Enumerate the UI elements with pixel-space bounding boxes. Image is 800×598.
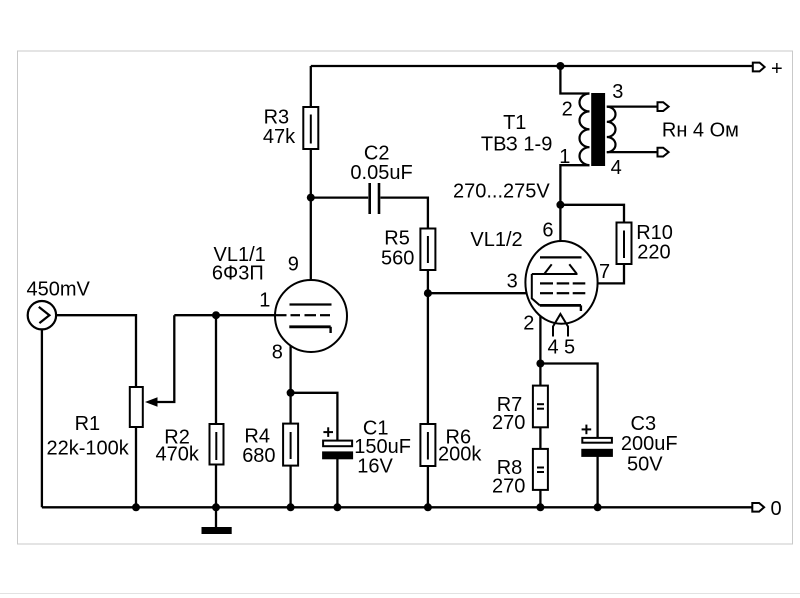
svg-text:4: 4 (548, 336, 559, 358)
node cathode VL1/1 (287, 389, 295, 397)
wire R2 bottom lead (215, 465, 217, 508)
node top rail T1 (556, 62, 564, 70)
wire node to C2 left plate (311, 196, 368, 198)
wire pot bottom lead (135, 428, 137, 507)
wire R4 bottom lead (289, 466, 291, 508)
capacitor C1 electrolytic (322, 427, 353, 459)
resistor R4 (283, 424, 298, 466)
node R5/R6 grid (424, 289, 432, 297)
tube VL1/1 triode (275, 280, 348, 352)
label 450mV (27, 278, 91, 300)
wire C2 right plate to R5 corner (380, 198, 428, 229)
label plus (771, 58, 783, 80)
svg-text:6: 6 (542, 219, 553, 241)
node rail R8 (536, 503, 544, 511)
label R2 value (156, 426, 200, 465)
svg-text:C3: C3 (631, 413, 657, 435)
svg-text:8: 8 (272, 342, 283, 364)
wire VL1/2 cathode lead pin 2 (539, 305, 541, 363)
svg-text:R1: R1 (75, 413, 101, 435)
svg-text:+: + (771, 58, 783, 80)
label C1 value (354, 418, 411, 478)
pin 3 (507, 271, 518, 293)
svg-text:4: 4 (611, 157, 622, 179)
wire C3 bottom lead (596, 456, 598, 507)
svg-text:VL1/2: VL1/2 (470, 229, 522, 251)
wire top rail (+) (311, 65, 753, 67)
label anode voltage (453, 181, 550, 203)
terminal + (753, 63, 765, 72)
svg-text:2: 2 (562, 99, 573, 121)
node anode VL1/2 (556, 201, 564, 209)
wire source bottom lead down to rail (41, 329, 43, 507)
T1 pin 1 (559, 146, 570, 168)
svg-text:270: 270 (492, 475, 525, 497)
svg-text:9: 9 (288, 253, 299, 275)
pin 2 (523, 313, 534, 335)
node R3/C2 (307, 194, 315, 202)
resistor R7 (533, 386, 548, 428)
wire R5 bottom to node (427, 270, 429, 293)
node cathode VL1/2 (536, 360, 544, 368)
wire R2 top lead (215, 315, 217, 424)
svg-text:270: 270 (492, 412, 525, 434)
node grid/R2 (212, 311, 220, 319)
node rail C3 (594, 503, 602, 511)
wire node to R10 top (560, 205, 624, 223)
wire R10 bottom to VL1/2 screen pin 7 (589, 264, 624, 283)
wire T1 secondary bottom lead pin 4 (607, 151, 658, 153)
pin 5 (564, 336, 575, 358)
pin 8 (272, 342, 283, 364)
label Rn 4 Om (662, 120, 739, 142)
label R5 value (381, 228, 414, 270)
svg-text:7: 7 (599, 261, 610, 283)
pin 1 (259, 289, 270, 311)
svg-text:0.05uF: 0.05uF (350, 162, 412, 184)
wire node to VL1/2 grid pin 3 (428, 292, 537, 294)
svg-text:200uF: 200uF (621, 433, 678, 455)
label zero (771, 498, 782, 520)
svg-text:1: 1 (259, 289, 270, 311)
potentiometer R1 body (130, 387, 158, 427)
node rail R4 (287, 503, 295, 511)
label VL1/2 (470, 229, 522, 251)
resistor R5 (420, 229, 435, 271)
wire bottom rail (0) (42, 506, 752, 508)
tube VL1/2 pentode (525, 241, 597, 337)
wire pot wiper to grid rail (157, 315, 175, 402)
svg-text:1: 1 (559, 146, 570, 168)
terminal secondary bottom (658, 148, 669, 157)
svg-text:R3: R3 (264, 107, 290, 129)
input source 450mV (28, 301, 56, 329)
svg-text:2: 2 (523, 313, 534, 335)
svg-text:47k: 47k (263, 126, 296, 148)
pin 6 (542, 219, 553, 241)
svg-text:ТВЗ 1-9: ТВЗ 1-9 (481, 133, 552, 155)
label C3 value (621, 413, 678, 475)
svg-text:560: 560 (381, 248, 414, 270)
T1 pin 4 (611, 157, 622, 179)
pin 7 (599, 261, 610, 283)
T1 pin 2 (562, 99, 573, 121)
terminal secondary top (658, 102, 669, 111)
pin 4 (548, 336, 559, 358)
svg-text:200k: 200k (438, 443, 482, 465)
svg-text:0: 0 (771, 498, 782, 520)
node rail R1 (132, 503, 140, 511)
wire R3 bottom lead to node (310, 149, 312, 198)
wire grid line to VL1/1 (174, 314, 286, 316)
svg-text:270...275V: 270...275V (453, 181, 550, 203)
wire input source to pot corner (49, 315, 136, 387)
wire node down to R6 (427, 293, 429, 424)
label R6 value (438, 426, 482, 465)
node rail R6 (424, 503, 432, 511)
resistor R3 (303, 107, 318, 149)
resistor R6 (420, 424, 435, 466)
wire VL1/1 cathode lead pin 8 (289, 327, 291, 393)
wire R3 top lead (310, 66, 312, 107)
svg-text:470k: 470k (156, 443, 200, 465)
label R10 value (636, 222, 673, 264)
wire T1 primary top lead from rail (560, 66, 589, 94)
svg-text:3: 3 (507, 271, 518, 293)
svg-text:5: 5 (564, 336, 575, 358)
capacitor C2 (370, 183, 379, 214)
pin 9 (288, 253, 299, 275)
svg-text:3: 3 (612, 81, 623, 103)
svg-text:6Ф3П: 6Ф3П (212, 262, 264, 284)
svg-text:R5: R5 (384, 228, 410, 250)
svg-text:T1: T1 (503, 112, 526, 134)
svg-text:220: 220 (637, 242, 670, 264)
capacitor C3 electrolytic (581, 425, 613, 457)
terminal 0 (752, 503, 764, 512)
wire T1 secondary top lead pin 3 (607, 105, 658, 107)
label R7 value (492, 394, 525, 434)
svg-text:22k-100k: 22k-100k (47, 437, 130, 459)
resistor R8 (533, 449, 548, 490)
wire cathode node to C3 (540, 364, 597, 438)
wire R4 top lead (289, 393, 291, 424)
svg-text:Rн 4 Ом: Rн 4 Ом (662, 120, 739, 142)
label R3 value (263, 107, 296, 149)
node rail C1 (333, 503, 341, 511)
svg-text:16V: 16V (357, 456, 393, 478)
resistor R10 (617, 223, 632, 265)
wire R8 bottom lead (539, 490, 541, 507)
svg-text:450mV: 450mV (27, 278, 91, 300)
label T1 (481, 112, 552, 155)
wire C1 bottom lead (336, 459, 338, 507)
wire cathode node to C1 (291, 393, 338, 440)
node rail R2 (212, 503, 220, 511)
label R8 value (492, 457, 525, 497)
svg-text:680: 680 (242, 445, 275, 467)
label C2 value (350, 142, 412, 184)
wire ground stub (215, 507, 217, 527)
wire R7 to R8 link (539, 427, 541, 449)
ground (202, 527, 232, 534)
T1 pin 3 (612, 81, 623, 103)
label R4 value (242, 426, 275, 467)
label R1 value (47, 413, 130, 459)
wire VL1/1 plate lead pin 9 (310, 198, 312, 305)
label VL1/1 (212, 244, 266, 284)
resistor R2 (210, 424, 224, 465)
svg-text:50V: 50V (627, 453, 663, 475)
transformer T1 (580, 93, 616, 166)
wire VL1/2 plate lead pin 6 (559, 205, 561, 258)
wire T1 primary bottom lead to node (560, 165, 589, 205)
wire R6 bottom lead (427, 466, 429, 507)
wire R7 top lead (539, 364, 541, 386)
